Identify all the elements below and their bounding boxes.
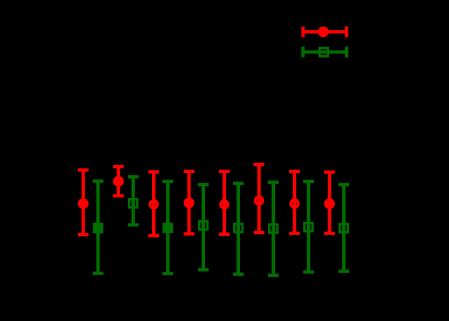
green errorbar 6 (open square): [268, 182, 279, 275]
legend green sample (errorbar with open square): [303, 47, 347, 58]
green errorbar 4 (open square): [198, 185, 209, 270]
green errorbar 7 (open square): [303, 181, 314, 272]
red errorbar 4 (filled circle): [184, 171, 195, 233]
red errorbar 8 (filled circle): [324, 172, 335, 233]
red errorbar 1 (filled circle): [78, 170, 89, 235]
red errorbar 6 (open circle): [254, 165, 265, 233]
green errorbar 1 (filled square): [93, 181, 104, 273]
legend red sample (errorbar with filled circle): [303, 26, 347, 37]
red errorbar 2 (filled circle): [113, 167, 124, 196]
green errorbar 5 (open square): [233, 183, 244, 274]
green errorbar 8 (open square): [338, 185, 349, 272]
red errorbar 3 (open circle): [148, 172, 159, 236]
green errorbar 2 (open square): [128, 177, 139, 225]
red errorbar 7 (open circle): [289, 171, 300, 233]
red errorbar 5 (open circle): [219, 171, 230, 234]
green errorbar 3 (filled square): [162, 181, 173, 273]
